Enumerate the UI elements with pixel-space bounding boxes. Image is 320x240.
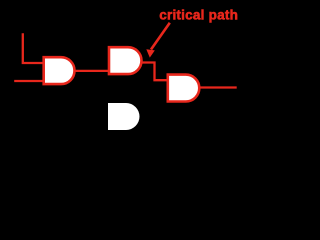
svg-text:critical path: critical path <box>159 8 238 23</box>
